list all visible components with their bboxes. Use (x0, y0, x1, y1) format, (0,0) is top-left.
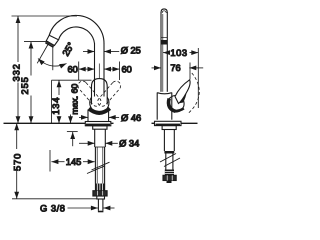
svg-text:G 3/8: G 3/8 (40, 204, 66, 214)
svg-text:60: 60 (122, 65, 132, 75)
svg-text:Ø 25: Ø 25 (121, 45, 141, 55)
svg-text:255: 255 (20, 76, 30, 94)
svg-text:76: 76 (170, 63, 180, 73)
svg-text:25°: 25° (61, 40, 77, 57)
svg-text:145: 145 (66, 157, 82, 167)
svg-text:Ø 46: Ø 46 (121, 113, 141, 123)
svg-text:570: 570 (12, 153, 22, 171)
svg-text:103: 103 (170, 48, 187, 58)
svg-text:60: 60 (67, 65, 77, 75)
svg-text:max. 60: max. 60 (69, 84, 79, 115)
svg-text:Ø 34: Ø 34 (119, 138, 139, 148)
svg-text:134: 134 (51, 97, 61, 115)
